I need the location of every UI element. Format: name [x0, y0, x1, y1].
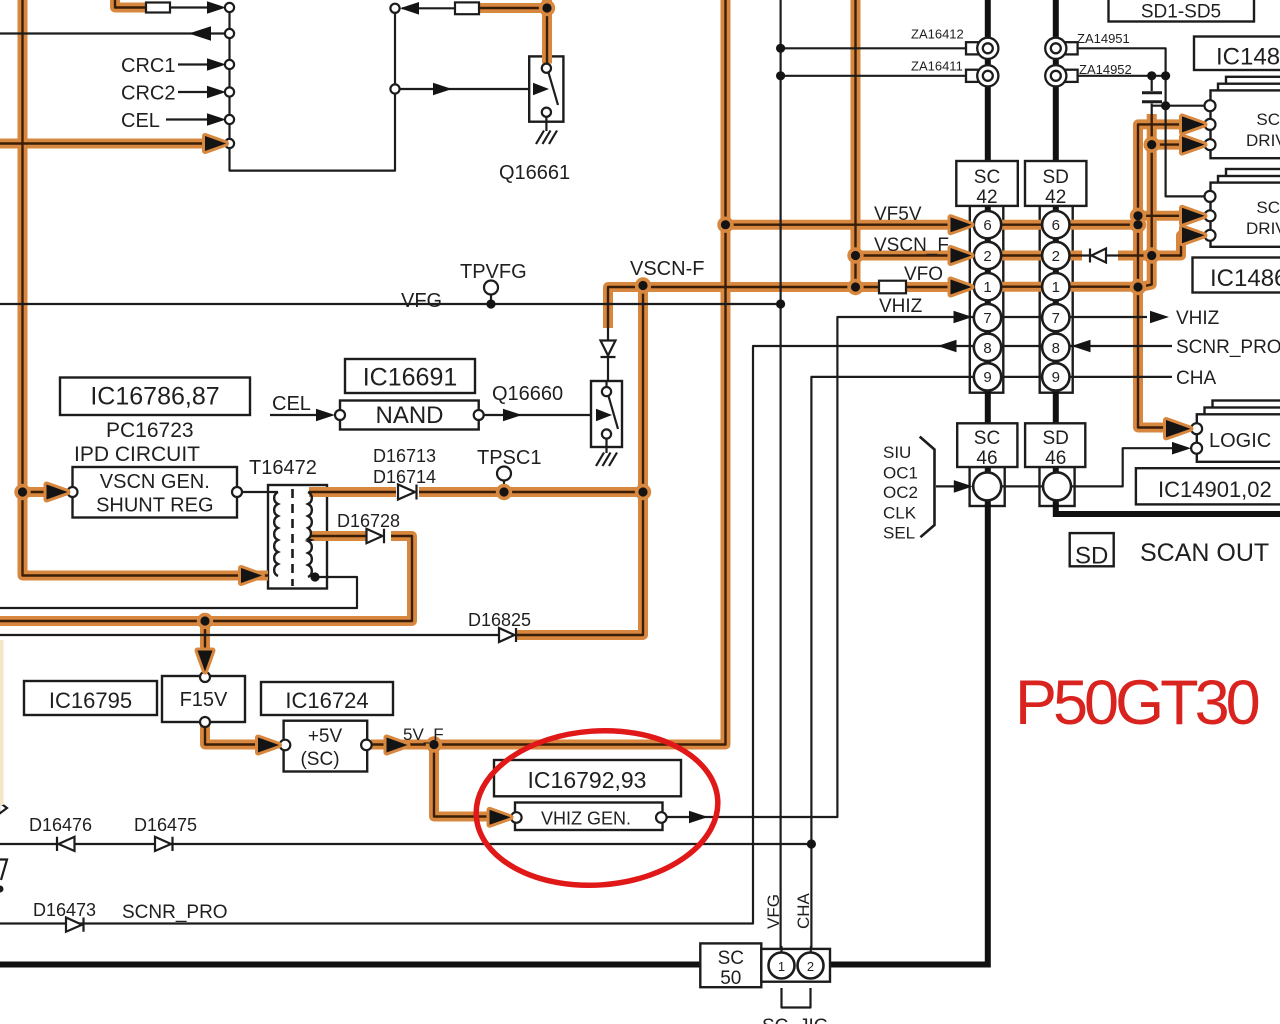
svg-text:2: 2	[1052, 248, 1060, 265]
junction dot CHA riser at diode bus	[807, 839, 816, 848]
arrow orange into DRIVE2-3	[1182, 227, 1205, 243]
svg-text:VF5V: VF5V	[874, 204, 922, 225]
svg-text:CRC1: CRC1	[121, 55, 175, 77]
svg-text:SEL: SEL	[883, 524, 915, 543]
junction dot riser1152 drive1	[1147, 140, 1156, 149]
svg-text:D16713: D16713	[373, 446, 436, 466]
IC148.. label box lower	[1193, 258, 1280, 293]
arrow SCNR_PRO left at SD42-8	[1072, 340, 1091, 353]
SD1-SD5 label box	[1109, 0, 1255, 22]
wire Q16661 feed row: circle to resistor	[402, 7, 455, 9]
connector SD42 label box	[1025, 161, 1086, 206]
arrow orange into DRIVE1-2	[1182, 116, 1205, 132]
junction dot VSCN_F branch	[851, 251, 860, 260]
wire node column and loop to Q16661 branch	[230, 8, 396, 171]
pin +5V in	[280, 740, 291, 751]
svg-text:IC16792,93: IC16792,93	[528, 767, 647, 793]
wire DRIVE1 pin1 feed	[1166, 105, 1205, 107]
node loop mid	[390, 84, 399, 93]
ZA terminal symbols	[966, 38, 1078, 87]
wire VSCN GEN output to transformer	[242, 491, 278, 493]
connector SC46 label box	[957, 423, 1017, 467]
left edge cut dot	[0, 886, 4, 893]
svg-text:SHUNT REG: SHUNT REG	[96, 495, 213, 517]
connector SC42 label box	[956, 161, 1018, 206]
pin SC50-1	[769, 953, 795, 979]
junction dot top Q16661 feed	[542, 3, 551, 12]
junction dot VFG riser	[776, 299, 785, 308]
connector SD46 label box	[1025, 423, 1085, 467]
svg-text:50: 50	[720, 968, 741, 989]
wire SIU brace to SC46	[936, 485, 968, 487]
pin DRIVE1-1	[1205, 100, 1216, 111]
transformer T16472 secondary coil	[308, 492, 312, 577]
transistor Q16660 lever	[609, 396, 619, 429]
pin Q16660 top	[602, 387, 611, 396]
arrow orange down into F15V	[198, 651, 213, 672]
wire thick SC46 pin spine and bus riser	[985, 467, 991, 506]
wire diode bus line y=844	[0, 843, 811, 845]
SD tag box (SCAN OUT legend)	[1070, 533, 1114, 566]
pin VHIZ GEN in	[511, 812, 522, 823]
diode D16475	[155, 837, 173, 851]
svg-text:SCNR_PRO: SCNR_PRO	[122, 902, 228, 923]
svg-text:7: 7	[1052, 310, 1060, 327]
SCAN DRIVE block 2 stack	[1211, 169, 1280, 247]
svg-text:SCAN: SCAN	[1256, 198, 1280, 217]
IC16691 label box	[345, 359, 475, 393]
pin SC42-6	[974, 211, 1001, 238]
svg-text:CEL: CEL	[121, 110, 160, 132]
svg-text:1: 1	[1052, 279, 1060, 296]
annotation red ellipse around VHIZ GEN	[471, 723, 723, 894]
ground below Q16660	[596, 439, 617, 467]
node loop top	[390, 4, 399, 13]
arrow tip Q16661 gate	[533, 83, 549, 96]
svg-text:VHIZ: VHIZ	[1176, 308, 1220, 329]
wire orange branch to SCAN DRIVE2 pin3	[1152, 235, 1184, 255]
junction dot cap bottom tie	[1161, 101, 1170, 110]
junction dot TPSC1	[499, 487, 508, 496]
junction dot risers merge	[1133, 282, 1142, 291]
transformer T16472 body box	[268, 485, 327, 589]
diode D16728	[367, 529, 385, 543]
wire ZA14952 line	[1073, 75, 1166, 77]
pin F15V top	[200, 672, 210, 682]
wire NAND output to Q16660	[484, 414, 609, 416]
svg-text:46: 46	[1045, 448, 1066, 469]
wire NAND input from CEL	[270, 414, 324, 416]
terminal ZA16411	[966, 65, 998, 86]
wire capacitor top stub	[1151, 76, 1153, 91]
wire VFG riser x=780.6	[779, 0, 781, 953]
junction dot VSCN-F riser at transformer row	[638, 487, 647, 496]
wire CHA into SC50 pin2	[810, 946, 812, 953]
svg-text:TPVFG: TPVFG	[460, 261, 527, 283]
arrow into NAND	[316, 409, 335, 422]
svg-text:ZA14952: ZA14952	[1079, 62, 1132, 77]
junction dot transformer secondary bottom	[310, 572, 319, 581]
arrow SIU bus into SC46	[954, 480, 973, 493]
arrow tip into Q16660	[596, 409, 612, 422]
pin NAND out	[474, 410, 484, 420]
wire SD46 to LOGIC pin2	[1071, 448, 1185, 486]
wire orange branch to SCAN DRIVE2 pin2	[1138, 211, 1184, 221]
svg-text:IPD CIRCUIT: IPD CIRCUIT	[74, 443, 200, 466]
ARROW_LAYER	[47, 116, 1205, 824]
pin SC50-2	[798, 953, 824, 979]
wire thick SD42 pin strip spine	[1053, 206, 1059, 423]
wire orange vertical left rail x=22	[23, 0, 269, 576]
wire CHA row9 riser x=811	[811, 377, 1172, 953]
arrow left toward loop top	[400, 2, 419, 15]
junction dot VFO branch	[851, 282, 860, 291]
wire orange branch to VSCN GEN shunt reg input	[23, 487, 51, 497]
wire thick SD46 output to right edge	[1056, 504, 1280, 514]
wire orange transformer tap to D16728	[311, 531, 366, 541]
svg-text:IC16795: IC16795	[49, 688, 132, 713]
svg-text:7: 7	[983, 310, 991, 327]
arrow mid Q16661 gate line	[433, 83, 452, 96]
arrow into node CEL	[207, 113, 226, 126]
junction dot riser1138 VF5V	[1133, 220, 1142, 229]
arrow orange into VHIZ GEN	[490, 810, 511, 825]
arrow VHIZ GEN output	[689, 811, 708, 824]
wire transformer bottom return to y=608 line	[0, 577, 357, 608]
pin SC42-8	[974, 334, 1001, 361]
diode D16473	[66, 918, 84, 932]
pin LOGIC-2	[1191, 443, 1202, 454]
svg-text:46: 46	[976, 448, 997, 469]
svg-text:ZA16411: ZA16411	[911, 59, 963, 74]
arrow into LOGIC-2	[1172, 442, 1191, 455]
VSCN GEN. SHUNT REG block	[73, 467, 238, 518]
wire ZA16411 line y=75.8	[781, 75, 971, 77]
svg-text:T16472: T16472	[249, 457, 317, 479]
diode D16825	[499, 628, 516, 642]
wire orange top feed to Q16661 via resistor	[478, 0, 547, 63]
node orange row	[225, 139, 234, 148]
wire SCNR_PRO row8 and riser x=753	[0, 346, 1172, 924]
pin SD42-1	[1042, 273, 1069, 300]
pin SD42-9	[1042, 363, 1069, 390]
pin numbers SC42	[983, 217, 1060, 386]
wire VFG into SC50 pin1	[780, 946, 782, 953]
LOGIC block stack	[1197, 401, 1280, 462]
svg-text:OC2: OC2	[883, 483, 918, 502]
wire capacitor bottom stub and tie	[1152, 104, 1166, 115]
arrow into node row1	[207, 1, 226, 14]
svg-text:8: 8	[983, 340, 991, 357]
terminal ZA16412	[966, 38, 998, 59]
svg-text:1: 1	[983, 279, 991, 296]
pin F15V bottom	[200, 717, 210, 727]
svg-text:CHA: CHA	[794, 892, 813, 929]
svg-text:VFG: VFG	[764, 894, 783, 929]
NAND gate box U16691	[340, 401, 479, 430]
svg-text:IC1486: IC1486	[1210, 265, 1280, 292]
svg-text:TPSC1: TPSC1	[477, 447, 541, 469]
svg-text:SCAN: SCAN	[1256, 110, 1280, 129]
svg-text:ZA14951: ZA14951	[1077, 31, 1130, 46]
wire orange VSCN-F riser x=643 down to D16825	[516, 286, 643, 636]
svg-text:D16728: D16728	[337, 511, 400, 531]
wire orange row2 VSCN_F between and right of connectors	[1001, 251, 1152, 261]
wire Q16660 top diode line	[607, 328, 609, 387]
arrow orange out of +5V(SC)	[387, 738, 408, 753]
pin SC42-2	[974, 242, 1001, 269]
wire TPVFG stub	[490, 295, 492, 305]
diode right of SD42 pin2 pointing left	[1090, 249, 1106, 263]
junction dot riser1152 diode row	[1147, 251, 1156, 260]
pin VSCN GEN out	[232, 487, 242, 497]
wire orange drop from y=621 rail to F15V	[200, 621, 210, 652]
arrow SCNR_PRO left at SC42-8	[938, 340, 957, 353]
pin SD42-7	[1042, 304, 1069, 331]
junction dot TPVFG on VFG	[486, 299, 495, 308]
arrow left on y=33.5 line	[189, 26, 211, 40]
connector SD46 pin square	[1040, 467, 1075, 506]
svg-text:D16475: D16475	[134, 815, 197, 835]
svg-text:1: 1	[778, 959, 785, 974]
arrow VHIZ out right	[1150, 311, 1169, 324]
testpoint TPSC1	[497, 467, 511, 481]
wire orange y=621 rail from D16728	[0, 536, 412, 621]
svg-text:VSCN GEN.: VSCN GEN.	[100, 471, 210, 493]
svg-text:VFG: VFG	[401, 290, 442, 312]
wire CRC1 stub	[178, 63, 214, 65]
svg-text:CRC2: CRC2	[121, 83, 175, 105]
svg-text:2: 2	[983, 248, 991, 265]
resistor R top-left	[146, 3, 170, 13]
pin SC42-1	[974, 273, 1001, 300]
pin SC42-7	[974, 304, 1001, 331]
wire TPSC1 stub	[503, 481, 505, 493]
svg-text:SCAN OUT: SCAN OUT	[1140, 539, 1269, 567]
arrow orange into transformer primary	[241, 568, 262, 583]
svg-text:IC14901,02: IC14901,02	[1158, 477, 1272, 502]
wire VHIZ row7 riser x=837 from VHIZ GEN output	[666, 317, 1147, 817]
svg-text:IC16724: IC16724	[285, 688, 368, 713]
transistor Q16661 lever	[549, 73, 559, 106]
svg-text:42: 42	[976, 187, 997, 208]
svg-text:6: 6	[983, 217, 991, 234]
pin NAND in	[335, 410, 345, 420]
transformer core dashed line	[291, 489, 294, 586]
pin SC46	[973, 472, 1001, 500]
wire CEL stub	[166, 118, 214, 120]
terminal ZA14951	[1045, 38, 1077, 59]
svg-text:IC16786,87: IC16786,87	[90, 383, 219, 411]
wire orange branch to SCAN DRIVE1 pin3	[1152, 140, 1184, 150]
wire orange top-left feed to resistor	[115, 0, 146, 8]
svg-text:Q16660: Q16660	[492, 383, 563, 405]
wire orange 5V rail from +5V(SC) to right riser x=725	[371, 0, 726, 745]
connector SC50 pin box	[761, 949, 830, 982]
node CRC1	[225, 60, 234, 69]
SC50 riser stubs over box	[782, 946, 812, 953]
wire stub into Q16660	[605, 380, 607, 387]
wire Q16661 gate line	[400, 88, 546, 90]
DOT_LAYER	[14, 0, 1160, 753]
svg-text:VHIZ: VHIZ	[879, 296, 923, 317]
wire SC50 jig bracket	[782, 988, 811, 1008]
arrow mid NAND output	[503, 409, 522, 422]
connector SD42 pin strip	[1040, 206, 1073, 393]
junction dot VSCN-F riser top	[638, 281, 647, 290]
node CRC2	[225, 87, 234, 96]
wire orange 5V_F drop to VHIZ GEN	[434, 745, 492, 817]
svg-text:CHA: CHA	[1176, 368, 1216, 389]
IC16795 label box	[24, 681, 157, 715]
arrow orange into SC42-1	[951, 280, 972, 295]
junction dot cap top	[1147, 71, 1156, 80]
connector SC42 pin strip	[970, 206, 1004, 393]
svg-text:D16476: D16476	[29, 815, 92, 835]
diode above Q16660 pointing down	[601, 341, 616, 358]
wire orange riser x=855 and VSCN_F row into SC42 pin2	[856, 0, 951, 287]
arrow into SC42-7	[954, 311, 973, 324]
svg-text:SD1-SD5: SD1-SD5	[1141, 2, 1221, 23]
svg-text:LOGIC: LOGIC	[1209, 430, 1271, 452]
svg-text:SC: SC	[974, 167, 1000, 188]
svg-text:PC16723: PC16723	[106, 419, 194, 442]
svg-text:DRIVE: DRIVE	[1246, 131, 1280, 150]
pin DRIVE2-2	[1205, 210, 1216, 221]
wire CRC2 stub	[178, 91, 214, 93]
decorative pale strip left edge	[0, 640, 4, 805]
transistor Q16661 switch box	[529, 56, 563, 121]
svg-text:5V_F: 5V_F	[403, 725, 444, 744]
junction dot ZA16411 tap	[776, 71, 785, 80]
left edge cut symbol lower	[0, 860, 7, 881]
arrow orange into node column	[205, 136, 226, 151]
svg-text:D16714: D16714	[373, 467, 436, 487]
wire orange row1 VFO between and right of connectors	[1001, 282, 1138, 292]
terminal ZA14952	[1045, 65, 1077, 86]
svg-text:D16473: D16473	[33, 900, 96, 920]
wire y=33.5 out line	[0, 32, 225, 34]
pin Q16661 bottom	[542, 108, 551, 117]
connector SC50 label box	[700, 943, 761, 987]
wire orange transformer secondary to VSCN-F riser	[309, 487, 643, 497]
pin SD42-6	[1042, 211, 1069, 238]
junction dot VF5V rail	[721, 220, 730, 229]
transformer T16472 primary coil	[274, 492, 278, 576]
wire ZA14951 line to SCAN DRIVE pin1 feeds	[1073, 48, 1205, 196]
junction dot 5V_F	[429, 740, 438, 749]
arrow into node CRC2	[207, 86, 226, 99]
svg-text:8: 8	[1052, 340, 1060, 357]
svg-text:6: 6	[1052, 217, 1060, 234]
svg-text:IC16691: IC16691	[363, 364, 458, 392]
pin Q16660 bottom	[602, 429, 611, 438]
svg-text:SD: SD	[1075, 543, 1108, 570]
IC148.. label box top	[1194, 37, 1280, 71]
diode D16714	[398, 485, 417, 500]
pin DRIVE1-2	[1205, 119, 1216, 130]
F15V fuse box	[162, 676, 245, 722]
ground below Q16661	[536, 117, 557, 144]
ORANGE_LAYER	[0, 0, 1184, 817]
arrow into node CRC1	[207, 58, 226, 71]
arrow orange into DRIVE2-2	[1182, 208, 1205, 224]
pin DRIVE2-1	[1205, 191, 1216, 202]
wire orange VFO row through resistor to pin1	[856, 282, 951, 292]
wire SC46-SD46 link	[1001, 485, 1043, 487]
svg-text:VSCN_F: VSCN_F	[874, 235, 949, 256]
junction dot ZA16412 tap	[776, 44, 785, 53]
pin DRIVE1-3	[1205, 139, 1216, 150]
junction dot ZA lines join	[1161, 71, 1170, 80]
wire orange horizontal y=143 into node column	[0, 139, 210, 149]
pin Q16661 top	[542, 64, 551, 73]
IC16724 label box	[261, 682, 393, 715]
wire orange left bus riser x=1138 to LOGIC	[1138, 124, 1184, 427]
svg-text:SD: SD	[1042, 167, 1068, 188]
svg-text:P50GT30: P50GT30	[1015, 668, 1259, 738]
svg-text:Q16661: Q16661	[499, 162, 570, 184]
svg-text:42: 42	[1045, 187, 1066, 208]
wire VFG line y=304	[0, 303, 781, 305]
pin +5V out	[361, 740, 372, 751]
svg-text:9: 9	[1052, 369, 1060, 386]
pin SD46	[1043, 472, 1071, 500]
wire thick SD46 pin spine	[1053, 467, 1059, 506]
pin SD42-2	[1042, 242, 1069, 269]
resistor R in VFO line	[879, 281, 906, 294]
svg-text:IC1486: IC1486	[1216, 44, 1280, 71]
svg-text:SCNR_PRO: SCNR_PRO	[1176, 337, 1280, 358]
svg-text:OC1: OC1	[883, 464, 918, 483]
svg-text:VHIZ GEN.: VHIZ GEN.	[541, 809, 631, 829]
arrow orange into DRIVE1-3	[1182, 137, 1205, 153]
+5V (SC) regulator box	[284, 721, 368, 772]
VHIZ GEN. block	[515, 803, 663, 831]
svg-text:9: 9	[983, 369, 991, 386]
wire D16825 line y=635	[0, 634, 499, 636]
node row1	[225, 3, 234, 12]
svg-text:NAND: NAND	[375, 402, 443, 429]
pin DRIVE2-3	[1205, 230, 1216, 241]
connector circles SC42/SD42	[769, 211, 1072, 979]
svg-text:SC: SC	[718, 948, 744, 969]
wire resistor to node row1	[170, 6, 214, 8]
PREBOX_LAYER	[268, 206, 1075, 589]
wire ZA16412 line y=48.3	[781, 47, 971, 49]
svg-text:DRIVE: DRIVE	[1246, 219, 1280, 238]
svg-text:SC: SC	[974, 428, 1000, 449]
arrow orange into SC42-6	[951, 217, 972, 232]
svg-text:D16825: D16825	[468, 610, 531, 630]
svg-text:2: 2	[807, 959, 814, 974]
junction dot riser1138 drive2	[1133, 211, 1142, 220]
left edge cut symbol upper	[0, 802, 7, 814]
capacitor C near ZA14952	[1142, 93, 1162, 102]
svg-text:SD: SD	[1042, 428, 1068, 449]
CORE_LAYER	[0, 0, 1196, 817]
junction dot F15V drop	[200, 616, 209, 625]
svg-text:CLK: CLK	[883, 504, 917, 523]
node row2	[225, 29, 234, 38]
wire orange F15V to +5V(SC)	[205, 725, 256, 745]
IC16786,87 label box	[60, 378, 250, 416]
svg-text:F15V: F15V	[180, 689, 228, 711]
IC14901,0.. label box	[1136, 468, 1280, 504]
svg-text:SC_JIG: SC_JIG	[762, 1016, 829, 1024]
wire orange VF5V row y=224.7	[726, 220, 1139, 230]
pin VSCN GEN in	[68, 487, 78, 497]
